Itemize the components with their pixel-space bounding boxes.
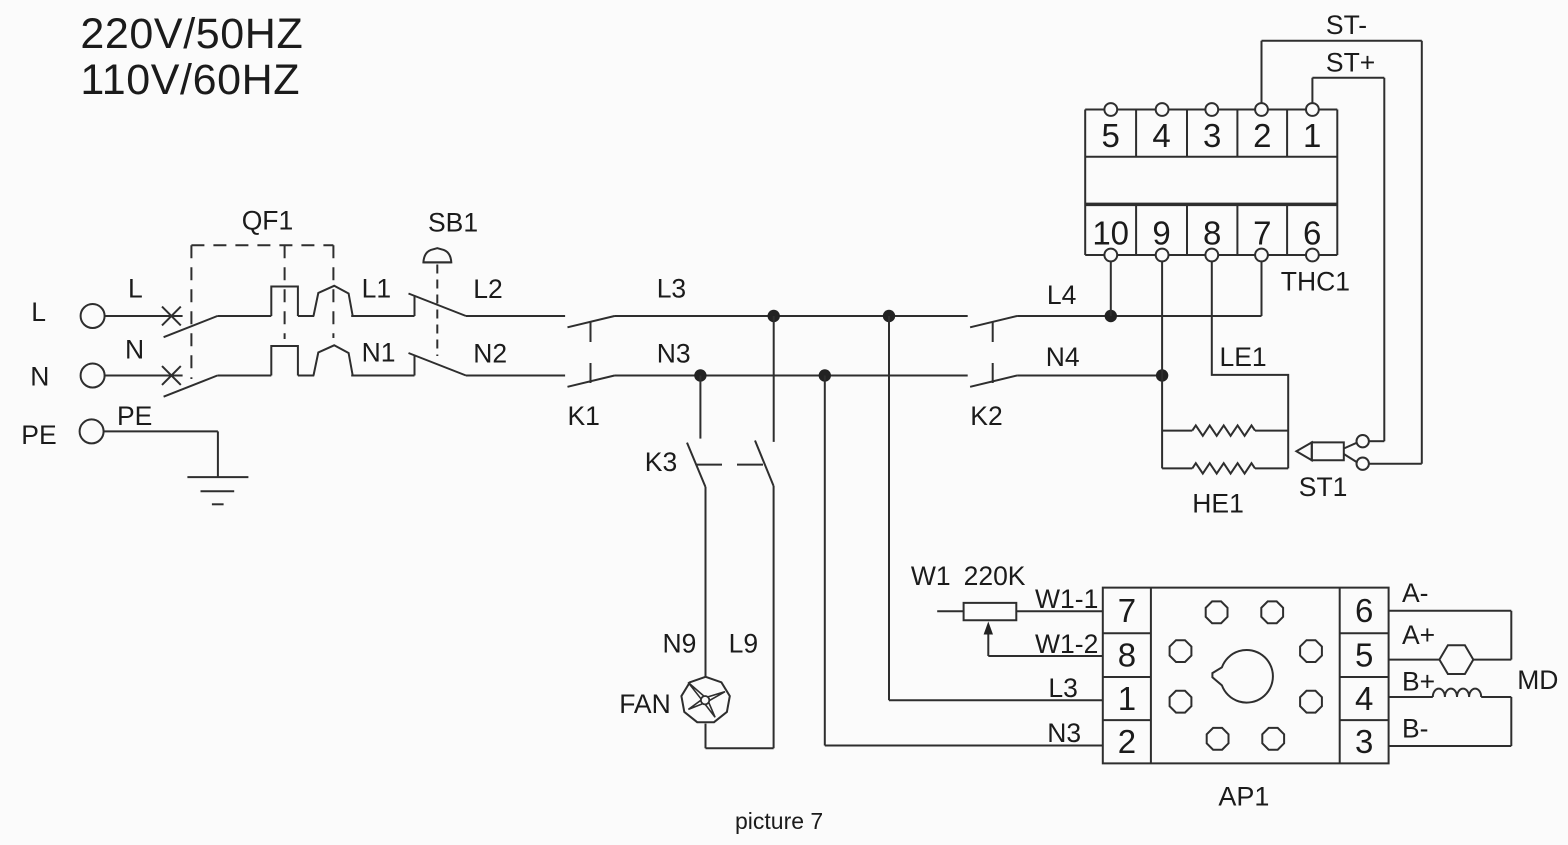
svg-text:7: 7 — [1118, 592, 1136, 629]
svg-text:AP1: AP1 — [1218, 782, 1269, 812]
svg-text:2: 2 — [1253, 117, 1271, 154]
svg-text:ST-: ST- — [1326, 10, 1367, 40]
svg-text:9: 9 — [1152, 215, 1170, 252]
svg-text:SB1: SB1 — [428, 208, 478, 238]
svg-text:THC1: THC1 — [1281, 267, 1350, 297]
svg-text:K1: K1 — [568, 401, 600, 431]
svg-text:HE1: HE1 — [1192, 489, 1244, 519]
svg-text:LE1: LE1 — [1220, 342, 1267, 372]
svg-text:3: 3 — [1203, 117, 1221, 154]
svg-text:2: 2 — [1118, 723, 1136, 760]
svg-text:220V/50HZ: 220V/50HZ — [80, 10, 303, 58]
svg-text:MD: MD — [1517, 665, 1558, 695]
svg-text:ST+: ST+ — [1326, 48, 1375, 78]
svg-text:1: 1 — [1118, 680, 1136, 717]
svg-text:W1-1: W1-1 — [1035, 584, 1098, 614]
svg-text:N: N — [125, 335, 144, 365]
svg-text:A-: A- — [1402, 578, 1429, 608]
svg-text:L: L — [128, 274, 143, 304]
svg-text:PE: PE — [117, 401, 152, 431]
svg-text:PE: PE — [21, 420, 56, 450]
svg-text:N4: N4 — [1046, 342, 1080, 372]
svg-text:L4: L4 — [1047, 280, 1076, 310]
svg-text:8: 8 — [1203, 215, 1221, 252]
svg-text:B-: B- — [1402, 714, 1429, 744]
svg-text:5: 5 — [1102, 117, 1120, 154]
svg-text:3: 3 — [1355, 723, 1373, 760]
svg-text:6: 6 — [1303, 215, 1321, 252]
svg-text:10: 10 — [1092, 215, 1129, 252]
svg-text:B+: B+ — [1402, 667, 1435, 697]
svg-text:L9: L9 — [729, 629, 758, 659]
svg-text:FAN: FAN — [619, 689, 671, 719]
svg-text:W1: W1 — [911, 561, 951, 591]
svg-text:5: 5 — [1355, 637, 1373, 674]
svg-text:4: 4 — [1152, 117, 1170, 154]
svg-text:N9: N9 — [663, 629, 697, 659]
svg-text:4: 4 — [1355, 680, 1373, 717]
svg-text:K3: K3 — [645, 447, 677, 477]
svg-text:picture 7: picture 7 — [735, 808, 823, 834]
svg-text:W1-2: W1-2 — [1035, 629, 1098, 659]
svg-text:QF1: QF1 — [242, 206, 294, 236]
svg-text:N2: N2 — [473, 339, 507, 369]
svg-text:220K: 220K — [964, 561, 1026, 591]
svg-text:N3: N3 — [657, 339, 691, 369]
svg-text:6: 6 — [1355, 592, 1373, 629]
svg-text:ST1: ST1 — [1299, 472, 1348, 502]
svg-text:A+: A+ — [1402, 620, 1435, 650]
svg-text:N: N — [30, 362, 49, 392]
svg-text:8: 8 — [1118, 637, 1136, 674]
svg-text:1: 1 — [1303, 117, 1321, 154]
svg-text:7: 7 — [1253, 215, 1271, 252]
svg-text:110V/60HZ: 110V/60HZ — [80, 56, 300, 104]
svg-text:L1: L1 — [362, 274, 391, 304]
svg-text:N1: N1 — [362, 338, 396, 368]
svg-text:L2: L2 — [473, 274, 502, 304]
svg-text:L: L — [31, 297, 46, 327]
svg-text:L3: L3 — [1048, 673, 1077, 703]
svg-text:L3: L3 — [657, 274, 686, 304]
svg-text:N3: N3 — [1047, 718, 1081, 748]
svg-text:K2: K2 — [970, 401, 1002, 431]
